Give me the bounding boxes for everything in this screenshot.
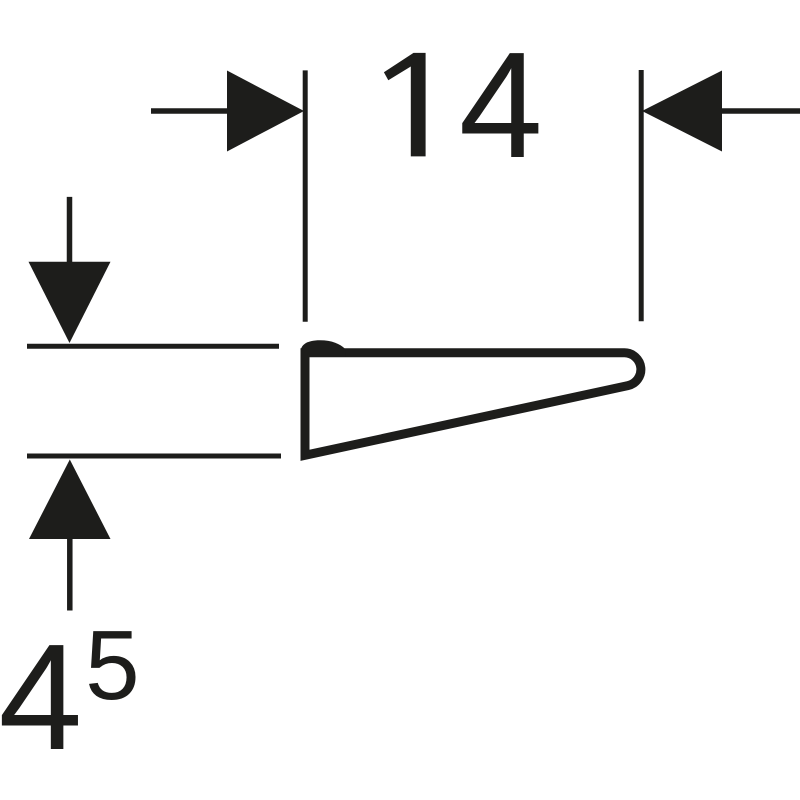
up arrow stem [67,538,73,611]
svg-text:4: 4 [0,612,82,781]
down arrowhead [29,262,111,343]
up arrowhead [29,460,111,540]
extension line vertical left [303,70,308,321]
seal profile outline (wedge) [305,353,641,456]
seal profile top-left bead [301,340,346,357]
arrowhead left pointing right [227,71,304,152]
extension line vertical right [639,70,644,321]
extension line horizontal bottom [27,454,281,459]
arrowhead right pointing left [642,71,722,152]
dimension line right (width 14) [721,108,800,114]
dimension line left (width 14) [151,108,229,114]
digit 1 of label 14 [384,53,426,156]
svg-text:4: 4 [459,20,543,189]
svg-text:5: 5 [85,610,140,720]
down arrow stem (height 4.5) [67,197,73,262]
extension line horizontal top [27,344,279,349]
